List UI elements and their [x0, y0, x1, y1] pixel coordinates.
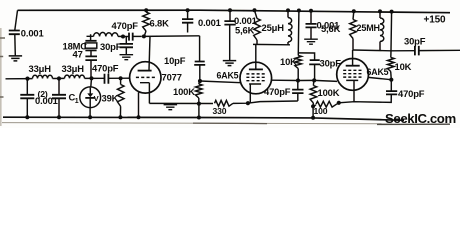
label 330: [213, 106, 227, 116]
node junction C1: [89, 76, 93, 80]
resistor 10K first: [295, 56, 302, 81]
wire cathode second: [337, 95, 392, 105]
wire stage2 plate node: [353, 49, 391, 52]
svg-text:V: V: [94, 94, 100, 103]
wire stage1 plate node: [253, 43, 290, 45]
wire 6AK5 first plate lead: [255, 45, 257, 70]
varicap C1: [80, 78, 101, 119]
wire osc tank left junction: [87, 34, 94, 40]
label 5.6K first: [235, 24, 255, 35]
wire grid bus segment c: [85, 77, 105, 79]
wire 330 to cathode: [233, 101, 298, 103]
svg-text:10pF: 10pF: [164, 55, 186, 66]
label (2) 0.001: [35, 89, 58, 106]
node grid 6AK5 second: [312, 78, 316, 82]
capacitor 10pF: [194, 62, 205, 81]
resistor 6.8K: [143, 8, 150, 36]
capacitor 470pF screen second: [386, 80, 397, 95]
node 6AK5 first cathode: [246, 101, 250, 105]
svg-text:6AK5: 6AK5: [217, 71, 239, 81]
capacitor 470pF plate tank: [123, 33, 142, 41]
wire grid 6AK5 first: [200, 81, 241, 83]
capacitor 47: [85, 56, 97, 78]
node screen second: [389, 78, 393, 82]
label 470pF grid coupling: [92, 63, 119, 74]
svg-text:33μH: 33μH: [29, 63, 52, 74]
svg-text:7077: 7077: [162, 71, 182, 82]
label 10K first: [280, 56, 297, 67]
svg-text:30pF: 30pF: [404, 36, 426, 47]
label 25MH: [357, 23, 380, 33]
watermark SeekIC.com: [377, 111, 456, 126]
label 0.001 B+ bypass: [234, 15, 257, 26]
wire 100K to ground rail: [198, 104, 200, 118]
node 100K ground rail: [197, 116, 201, 120]
svg-text:+150: +150: [424, 15, 447, 26]
label 100K second: [318, 87, 340, 98]
wire plate node: [144, 35, 200, 38]
label 33uH second: [62, 63, 85, 74]
wire 6AK5 second plate lead: [352, 50, 354, 66]
capacitor 0.001 input bypass: [9, 31, 20, 56]
resistor 100K second: [310, 80, 317, 106]
label 10K second: [395, 61, 412, 72]
wire B+ rail (top): [18, 10, 451, 13]
svg-text:1: 1: [75, 98, 79, 105]
node screen junction: [296, 78, 300, 82]
label 30pF output: [404, 36, 426, 47]
resistor 100: [313, 101, 336, 107]
wire screen feed: [297, 9, 301, 56]
node 100 ohm junction: [311, 104, 315, 108]
node osc tank right: [121, 35, 125, 39]
label 30pF coupling first: [320, 58, 342, 69]
capacitor 470pF screen bypass first: [292, 81, 303, 102]
label 0.001 (input bypass): [21, 28, 44, 39]
inductor osc tank coil: [94, 32, 124, 36]
resistor 10K second: [388, 58, 395, 80]
wire 6AK5 second screen tap: [368, 77, 391, 79]
svg-text:0.001: 0.001: [198, 17, 221, 28]
label 0.001 plate bypass: [198, 17, 221, 28]
wire plate corner down: [199, 36, 201, 62]
capacitor 30pF coupling first: [298, 53, 320, 80]
wire scan crease (bottom): [2, 123, 392, 124]
label 470pF plate tank: [112, 20, 139, 31]
wire grid bus segment b: [53, 77, 65, 79]
svg-text:330: 330: [213, 106, 227, 116]
label 33uH first: [29, 63, 52, 74]
wire grid bus segment d: [108, 77, 130, 79]
ground (screen line bypass): [304, 39, 318, 44]
label 30pF trimmer: [100, 41, 122, 52]
svg-text:39K: 39K: [102, 92, 119, 103]
label 6.8K: [150, 17, 170, 28]
wire left branch down: [15, 10, 18, 30]
resistor 5.6K first: [253, 8, 261, 44]
svg-text:25MH: 25MH: [357, 23, 380, 33]
label 18MC: [63, 40, 88, 51]
label 470pF screen second: [398, 88, 425, 99]
svg-text:0.001: 0.001: [21, 28, 44, 39]
node junction 39K: [119, 76, 123, 80]
resistor 39K: [117, 78, 124, 119]
capacitor 30pF trimmer: [120, 37, 133, 55]
svg-text:33μH: 33μH: [62, 63, 85, 74]
inductor 25MH: [378, 9, 384, 50]
node cathode second: [337, 101, 341, 105]
label 7077: [162, 71, 182, 82]
wire grid bus segment a: [6, 78, 33, 80]
label 47: [73, 49, 83, 60]
wire 7077 plate lead: [149, 36, 150, 70]
svg-text:470pF: 470pF: [112, 20, 139, 31]
label V: [94, 94, 100, 103]
node 7077 heater-rail: [137, 115, 141, 119]
svg-text:47: 47: [73, 49, 83, 60]
crystal 18MC: [85, 41, 97, 56]
wire 100K to rail: [312, 106, 314, 118]
ground (7077 cathode): [164, 104, 178, 110]
label 6AK5 second: [367, 67, 389, 77]
capacitor 0.001 B+ bypass: [224, 8, 235, 60]
resistor 100K first: [196, 81, 203, 104]
left page edge artifact: [0, 28, 5, 126]
label 100: [314, 106, 328, 116]
label 25uH: [262, 22, 285, 33]
label 5.6K second: [321, 23, 341, 34]
node cathode line left: [197, 102, 201, 106]
inductor 33uH first: [33, 75, 53, 78]
label 100K first: [173, 86, 195, 97]
wire B+ branch second: [390, 10, 394, 58]
svg-text:470pF: 470pF: [264, 86, 291, 97]
resistor 330: [215, 100, 234, 106]
node rail under 100K: [311, 116, 315, 120]
wire 7077 cathode line: [149, 102, 213, 104]
svg-text:100K: 100K: [173, 86, 195, 97]
node input junction: [25, 77, 29, 81]
label 6AK5 first: [217, 71, 239, 81]
label +150: [424, 15, 447, 26]
label C1: [69, 92, 79, 105]
wire screen bus: [272, 79, 315, 81]
pentode 6AK5 second: [337, 59, 369, 102]
svg-text:10K: 10K: [280, 56, 297, 67]
ground (input bypass): [9, 56, 22, 61]
svg-text:100: 100: [314, 106, 328, 116]
label 10pF: [164, 55, 186, 66]
capacitor 0.001 plate bypass: [182, 8, 193, 32]
node grid 6AK5 first: [198, 79, 202, 83]
label 39K: [102, 92, 119, 103]
svg-text:5,6K: 5,6K: [321, 23, 341, 34]
capacitor 0.001 screen line bypass: [306, 9, 317, 39]
svg-text:0.001: 0.001: [35, 95, 58, 106]
capacitor 470pF grid coupling: [105, 74, 109, 84]
inductor 25uH: [286, 8, 292, 44]
capacitor 30pF output: [391, 46, 460, 56]
svg-text:470pF: 470pF: [398, 88, 425, 99]
wire ground rail (bottom): [3, 117, 404, 120]
svg-text:470pF: 470pF: [92, 63, 119, 74]
capacitor 0.001 (2) first: [20, 79, 34, 120]
svg-text:25μH: 25μH: [262, 22, 285, 33]
label 470pF screen first: [264, 86, 291, 97]
pentode 6AK5 first: [240, 62, 272, 103]
capacitor 0.001 (2) second: [52, 79, 66, 120]
svg-text:30pF: 30pF: [100, 41, 122, 52]
ground (B+ bypass): [223, 61, 236, 66]
label 0.001 screen line: [317, 19, 340, 30]
node plate tank junction: [142, 34, 146, 38]
svg-text:100K: 100K: [318, 87, 340, 98]
node junction 2: [57, 76, 61, 80]
svg-text:5,6K: 5,6K: [235, 24, 255, 35]
svg-text:6.8K: 6.8K: [150, 17, 170, 28]
ground (trimmer): [120, 55, 134, 60]
resistor 5.6K second: [350, 9, 357, 50]
svg-text:10K: 10K: [395, 61, 412, 72]
inductor 33uH second: [65, 75, 85, 78]
triode 7077: [130, 62, 161, 118]
wire grid 6AK5 second: [314, 80, 337, 81]
svg-text:6AK5: 6AK5: [367, 67, 389, 77]
